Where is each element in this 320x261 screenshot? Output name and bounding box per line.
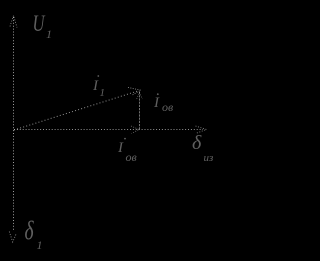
svg-text:U: U bbox=[33, 11, 46, 36]
svg-text:из: из bbox=[204, 152, 214, 164]
down arrowhead of vertical axis bbox=[9, 232, 16, 243]
label delta1 (bottom axis) bbox=[25, 216, 43, 252]
vector I1 (diagonal, dotted) bbox=[14, 91, 139, 130]
up arrowhead of vertical axis bbox=[10, 16, 17, 28]
svg-text:δ: δ bbox=[192, 132, 202, 154]
arrowhead of vector I1 bbox=[128, 87, 141, 95]
svg-text:ов: ов bbox=[162, 100, 173, 114]
svg-text:I: I bbox=[153, 95, 160, 111]
svg-text:1: 1 bbox=[37, 238, 43, 252]
arrowhead of horizontal axis bbox=[196, 126, 207, 134]
label I_ov (below axis, horizontal component) bbox=[117, 138, 137, 164]
svg-text:1: 1 bbox=[46, 27, 52, 41]
vertical component line (from vector tip down to axis) bbox=[139, 92, 141, 130]
label I_ov (right of vertical component) bbox=[153, 93, 173, 114]
svg-text:I: I bbox=[117, 140, 124, 156]
svg-text:I: I bbox=[92, 78, 99, 94]
svg-text:ов: ов bbox=[126, 150, 137, 164]
label U1 (top axis) bbox=[33, 11, 53, 41]
svg-text:1: 1 bbox=[100, 87, 106, 99]
small up arrowhead on vertical component bbox=[137, 93, 143, 100]
svg-text:δ: δ bbox=[25, 216, 34, 244]
vertical axis bbox=[13, 17, 15, 231]
label delta_iz (right axis) bbox=[192, 132, 213, 164]
mid arrowhead on axis (horizontal component tip) bbox=[131, 126, 139, 134]
label I1 (on diagonal) bbox=[92, 75, 105, 99]
horizontal axis (dotted, to the right) bbox=[14, 129, 203, 131]
